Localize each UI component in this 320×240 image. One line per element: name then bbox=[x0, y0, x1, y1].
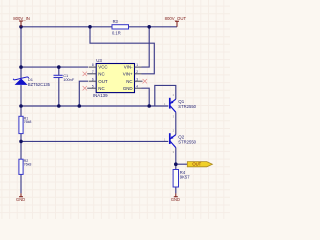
pin GND (4) bbox=[135, 87, 142, 89]
wire R4 to ground bbox=[175, 187, 177, 193]
ground right bbox=[171, 193, 180, 201]
svg-text:U3: U3 bbox=[96, 58, 102, 63]
resistor R2 bbox=[19, 159, 31, 174]
svg-text:NC: NC bbox=[98, 86, 104, 91]
svg-text:OUT: OUT bbox=[192, 162, 201, 167]
pin OUT (6) bbox=[89, 80, 97, 82]
svg-text:3: 3 bbox=[136, 77, 138, 81]
svg-text:R3: R3 bbox=[113, 19, 119, 24]
pin NC (5) bbox=[87, 87, 96, 89]
node R3 left tap bbox=[88, 25, 92, 29]
svg-text:GND: GND bbox=[171, 197, 180, 202]
capacitor C1 bbox=[54, 73, 75, 82]
wire VIN+ to R3 left bbox=[90, 27, 154, 74]
node C1 bottom bbox=[57, 104, 61, 108]
pin NC (3) bbox=[135, 80, 143, 82]
node left rail long line bbox=[19, 104, 23, 108]
svg-text:VIN+: VIN+ bbox=[123, 71, 133, 76]
svg-text:STR2550: STR2550 bbox=[178, 139, 196, 144]
svg-text:4: 4 bbox=[136, 84, 138, 88]
svg-text:VIN-: VIN- bbox=[124, 65, 133, 70]
current-sense amplifier U3 INA139 bbox=[83, 58, 147, 98]
wire C1 bottom lead bbox=[58, 78, 60, 107]
svg-text:100nF: 100nF bbox=[63, 77, 75, 82]
pin NC (7) bbox=[87, 73, 96, 75]
svg-text:0.1R: 0.1R bbox=[112, 30, 121, 35]
wire divider to Q2 base bbox=[21, 140, 168, 142]
node divider tap bbox=[19, 140, 23, 144]
no-ERC marker right pin 3 bbox=[143, 79, 147, 83]
node output junction at R4 top bbox=[174, 162, 178, 166]
power port 800V_IN bbox=[13, 16, 30, 27]
ground left bbox=[16, 193, 25, 201]
wire left rail upper bbox=[20, 27, 22, 78]
svg-text:8: 8 bbox=[92, 63, 94, 67]
resistor R1 bbox=[19, 116, 31, 133]
svg-text:BZT52C135: BZT52C135 bbox=[28, 82, 51, 87]
sheet background bbox=[0, 0, 230, 219]
svg-text:1: 1 bbox=[136, 63, 138, 67]
svg-text:NC: NC bbox=[126, 79, 132, 84]
zener diode D1 bbox=[13, 77, 51, 87]
svg-text:GND: GND bbox=[123, 86, 133, 91]
svg-text:6: 6 bbox=[92, 77, 94, 81]
wire Q2 collector down to output node bbox=[175, 148, 177, 170]
svg-text:OUT: OUT bbox=[98, 79, 108, 84]
port OUT bbox=[187, 162, 212, 167]
wire R2 to ground bbox=[20, 174, 22, 193]
resistor R4 bbox=[173, 170, 190, 188]
wire left rail mid bbox=[20, 85, 22, 116]
svg-text:2: 2 bbox=[136, 70, 138, 74]
transistor Q2 bbox=[164, 128, 197, 154]
svg-text:800V_IN: 800V_IN bbox=[13, 16, 30, 21]
svg-text:76k8: 76k8 bbox=[24, 163, 32, 167]
wire VIN- to R3 right bbox=[142, 27, 150, 67]
svg-text:9K57: 9K57 bbox=[180, 174, 190, 179]
no-ERC marker left pin 5 bbox=[83, 86, 87, 90]
svg-text:5: 5 bbox=[92, 84, 94, 88]
svg-text:7: 7 bbox=[92, 70, 94, 74]
transistor Q1 bbox=[164, 93, 197, 119]
node OUT pin join bbox=[78, 104, 82, 108]
node R3 right tap bbox=[147, 25, 151, 29]
wire GND pin down bbox=[142, 88, 150, 106]
pin VIN- (1) bbox=[135, 66, 142, 68]
wire VCC branch bbox=[21, 66, 88, 68]
svg-text:NC: NC bbox=[98, 71, 104, 76]
svg-text:76k8: 76k8 bbox=[24, 120, 32, 124]
wire long node line to Q1 base bbox=[21, 105, 168, 107]
node C1 top bbox=[57, 65, 61, 69]
wire Q1 collector to Q2 emitter bbox=[175, 112, 177, 134]
no-ERC marker left pin 7 bbox=[83, 72, 87, 76]
pin VCC (8) bbox=[89, 66, 97, 68]
resistor R3 bbox=[112, 19, 129, 35]
svg-text:GND: GND bbox=[16, 197, 25, 202]
svg-text:800V_OUT: 800V_OUT bbox=[165, 16, 187, 21]
wire C1 top lead bbox=[58, 67, 60, 75]
svg-text:STR2550: STR2550 bbox=[178, 104, 196, 109]
wire Q1 emitter riser jog bbox=[155, 85, 176, 106]
node GND pin join bbox=[147, 104, 151, 108]
node top-left bbox=[19, 25, 23, 29]
wire OUT pin down bbox=[79, 81, 88, 106]
svg-text:INA139: INA139 bbox=[93, 93, 108, 98]
wire to OUT port bbox=[176, 163, 188, 165]
svg-text:VCC: VCC bbox=[98, 65, 107, 70]
pin VIN+ (2) bbox=[135, 73, 142, 75]
node VCC branch bbox=[19, 65, 23, 69]
power port 800V_OUT bbox=[165, 16, 187, 27]
wire R1-R2 link bbox=[20, 134, 22, 160]
wire top main horizontal bbox=[21, 26, 177, 28]
